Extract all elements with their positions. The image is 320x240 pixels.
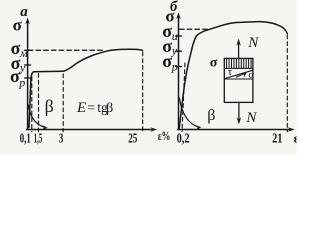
left x-axis xyxy=(27,129,152,131)
svg-text:α: α xyxy=(248,69,254,81)
label sigma_i right xyxy=(162,21,178,43)
dashed level sigma_m with axis tick xyxy=(25,49,31,51)
dashed drop at 0,1 xyxy=(31,77,33,132)
svg-text:N: N xyxy=(247,35,259,51)
svg-text:N: N xyxy=(245,110,257,126)
beta arc arrowhead right xyxy=(194,125,201,131)
specimen shear diagonal xyxy=(225,70,253,78)
dashed level sigma_i right xyxy=(180,28,210,30)
tick sigma_p right xyxy=(176,66,182,68)
right y-axis xyxy=(178,16,180,130)
left y-axis xyxy=(27,21,29,130)
specimen shear band bottom edge xyxy=(224,78,253,80)
label sigma_p right xyxy=(162,51,178,74)
svg-text:ε%: ε% xyxy=(158,128,171,143)
specimen rectangle xyxy=(224,58,253,102)
svg-text:β: β xyxy=(207,107,215,124)
svg-text:τ: τ xyxy=(228,66,233,78)
svg-text:ε: ε xyxy=(294,131,298,146)
svg-text:3: 3 xyxy=(59,132,64,147)
svg-text:σ: σ xyxy=(162,51,172,71)
label sigma_y left xyxy=(11,53,26,75)
svg-text:β: β xyxy=(45,96,54,116)
svg-text:0,1: 0,1 xyxy=(20,132,31,147)
svg-text:21: 21 xyxy=(272,132,282,147)
cast iron curve xyxy=(179,22,287,129)
left x-axis arrowhead xyxy=(150,127,157,132)
svg-text:1,5: 1,5 xyxy=(34,132,42,147)
beta arc arrowhead left xyxy=(41,124,48,130)
svg-text:σ: σ xyxy=(13,15,23,34)
left y-axis arrowhead xyxy=(25,18,30,25)
specimen bottom N arrow xyxy=(238,103,240,121)
dashed drop at 21 xyxy=(286,35,288,132)
dashed drop at 3 xyxy=(62,74,64,132)
label sigma_y right xyxy=(162,36,178,58)
beta arc left xyxy=(28,105,44,128)
label sigma prime p left xyxy=(10,66,25,90)
svg-text:σ: σ xyxy=(210,55,218,70)
svg-text:E=tgβ: E=tgβ xyxy=(76,100,113,116)
right y-axis arrowhead xyxy=(176,12,181,19)
svg-text:25: 25 xyxy=(128,132,137,147)
steel curve xyxy=(29,49,143,127)
beta arc right xyxy=(179,98,197,127)
dashed drop at 25 xyxy=(142,52,144,132)
dashed offset line 0,2 xyxy=(182,63,185,132)
svg-text:0,2: 0,2 xyxy=(177,131,190,146)
label sigma_m left xyxy=(11,38,28,60)
specimen top hatch band xyxy=(224,59,253,69)
specimen top N arrow xyxy=(238,42,240,58)
dashed drop at 1,5 xyxy=(38,74,40,132)
right x-axis xyxy=(178,129,290,131)
tick sigma_p left xyxy=(25,77,31,79)
right x-axis arrowhead xyxy=(288,127,295,132)
tick sigma_i right xyxy=(176,35,182,37)
tick sigma_y right xyxy=(176,50,182,52)
tick sigma_y left xyxy=(25,64,31,66)
specimen shear arrow xyxy=(236,74,244,77)
